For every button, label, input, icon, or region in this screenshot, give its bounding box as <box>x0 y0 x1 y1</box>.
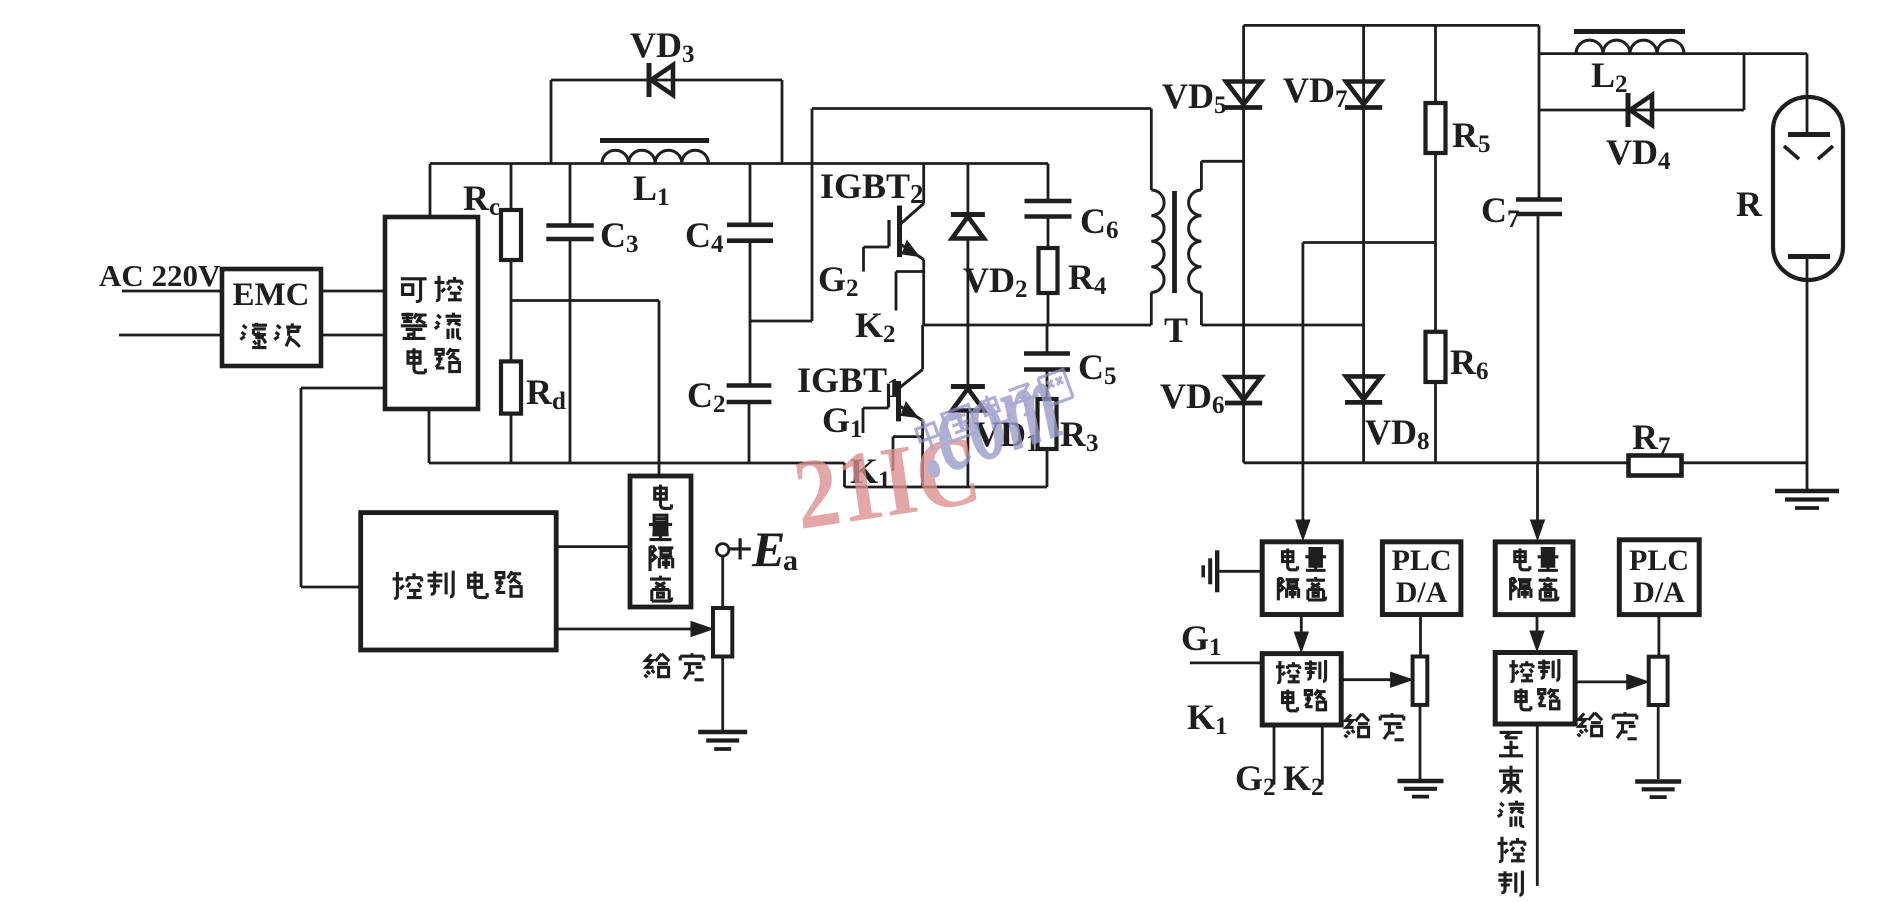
svg-text:a: a <box>783 544 798 577</box>
svg-text:AC 220V: AC 220V <box>99 258 221 293</box>
svg-text:PLC: PLC <box>1629 544 1689 577</box>
svg-text:IGBT2: IGBT2 <box>820 166 924 209</box>
svg-text:IGBT1: IGBT1 <box>797 360 901 403</box>
svg-text:PLC: PLC <box>1392 544 1452 577</box>
svg-text:D/A: D/A <box>1633 576 1685 609</box>
svg-text:D/A: D/A <box>1396 576 1448 609</box>
svg-text:R: R <box>1736 184 1763 224</box>
svg-text:E: E <box>751 521 785 577</box>
svg-text:+: + <box>727 523 753 574</box>
svg-text:EMC: EMC <box>233 277 310 313</box>
svg-text:T: T <box>1164 310 1188 350</box>
